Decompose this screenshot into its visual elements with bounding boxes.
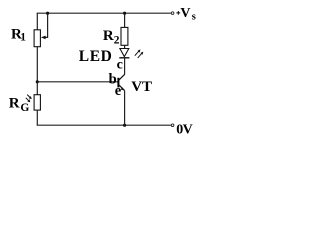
- wire RG to bottom rail: [36, 110, 38, 125]
- emitter arrowhead: [121, 87, 125, 90]
- wire LED to collector: [124, 58, 126, 75]
- svg-text:c: c: [117, 57, 123, 72]
- wire bottom rail: [37, 124, 171, 126]
- terminal +Vs: [171, 12, 174, 15]
- LED light arrow 2: [138, 53, 142, 58]
- wire base horizontal: [37, 81, 117, 83]
- wiper arrowhead R1: [41, 36, 46, 40]
- wire R2 branch top: [124, 14, 126, 27]
- wire R1 to base junction and on to RG: [36, 47, 38, 95]
- resistor R1: [34, 30, 40, 47]
- wire R1 wiper loop: [45, 14, 47, 37]
- wire emitter vertical: [124, 91, 126, 126]
- label +Vs : plus sign: [176, 11, 180, 15]
- transistor VT emitter lead: [119, 85, 125, 91]
- wire R2 to LED: [124, 45, 126, 48]
- svg-text:s: s: [192, 12, 196, 23]
- node junction R2 branch on top rail: [123, 12, 126, 15]
- svg-text:0V: 0V: [176, 122, 192, 137]
- LED cathode bar: [119, 57, 129, 59]
- LED light arrow 1: [135, 51, 139, 56]
- svg-text:e: e: [115, 83, 122, 99]
- svg-text:G: G: [20, 102, 29, 114]
- svg-text:R: R: [9, 96, 20, 112]
- svg-text:VT: VT: [131, 79, 152, 95]
- terminal 0V: [171, 124, 174, 127]
- wire top rail: [37, 12, 171, 14]
- wire left vertical (rail to R1): [36, 13, 38, 30]
- svg-text:LED: LED: [79, 48, 113, 65]
- svg-text:2: 2: [114, 35, 120, 47]
- svg-text:V: V: [180, 6, 190, 21]
- svg-text:R: R: [103, 28, 114, 44]
- node emitter junction on bottom rail: [123, 124, 126, 127]
- node junction R1 wiper on top rail: [46, 12, 49, 15]
- resistor R2: [121, 27, 128, 45]
- resistor RG: [34, 95, 40, 110]
- node base junction: [36, 80, 39, 83]
- transistor VT collector lead: [119, 74, 125, 80]
- LED diode triangle: [120, 49, 129, 57]
- svg-text:1: 1: [20, 31, 26, 43]
- light arrow 1 into RG: [27, 95, 30, 98]
- transistor VT base bar: [117, 78, 119, 88]
- light arrow 2 into RG: [26, 98, 29, 101]
